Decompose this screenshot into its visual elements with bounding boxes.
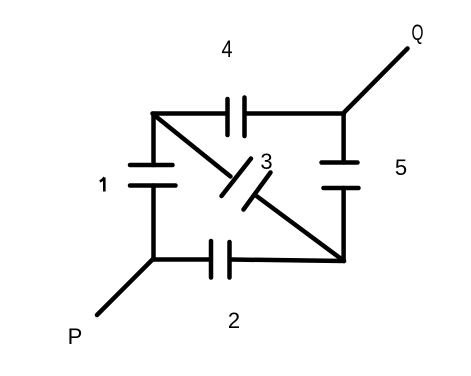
wire: left side, node A down to capacitor C1 top plate <box>151 114 156 166</box>
svg-text:5: 5 <box>395 155 407 180</box>
svg-text:2: 2 <box>228 308 240 333</box>
wire: terminal lead from node B to terminal Q <box>344 49 408 113</box>
svg-text:P: P <box>68 324 83 349</box>
svg-text:4: 4 <box>222 36 233 63</box>
wire: terminal lead from node D to terminal P <box>97 260 153 316</box>
wire: top side, capacitor C4 right plate to node B (top-right corner) <box>247 111 345 116</box>
svg-text:3: 3 <box>260 149 272 174</box>
wire: diagonal from node A to capacitor C3 first plate <box>154 115 231 177</box>
label 1 <box>100 177 105 191</box>
capacitor C2 (bottom branch) <box>211 241 230 278</box>
capacitor C4 (top branch) <box>228 98 245 137</box>
wire: left side, capacitor C1 bottom plate down to node D <box>151 186 156 260</box>
wire: right side, node B down to capacitor C5 top plate <box>341 114 346 163</box>
wire: bottom side, capacitor C2 right plate to node C <box>231 260 344 262</box>
capacitor C1 (left branch) <box>130 165 176 186</box>
wire: right side, capacitor C5 bottom plate down to node C (bottom-right corner) <box>341 188 346 261</box>
wire: top side, node A (top-left corner) to capacitor C4 left plate <box>153 111 226 116</box>
svg-text:Q: Q <box>412 20 424 45</box>
capacitor C5 (right branch) <box>322 163 359 189</box>
wire: bottom side, node D (bottom-left corner) to capacitor C2 left plate <box>153 257 210 262</box>
capacitor C3 (diagonal branch) <box>222 159 271 210</box>
wire: diagonal from capacitor C3 second plate to node C <box>255 195 345 262</box>
